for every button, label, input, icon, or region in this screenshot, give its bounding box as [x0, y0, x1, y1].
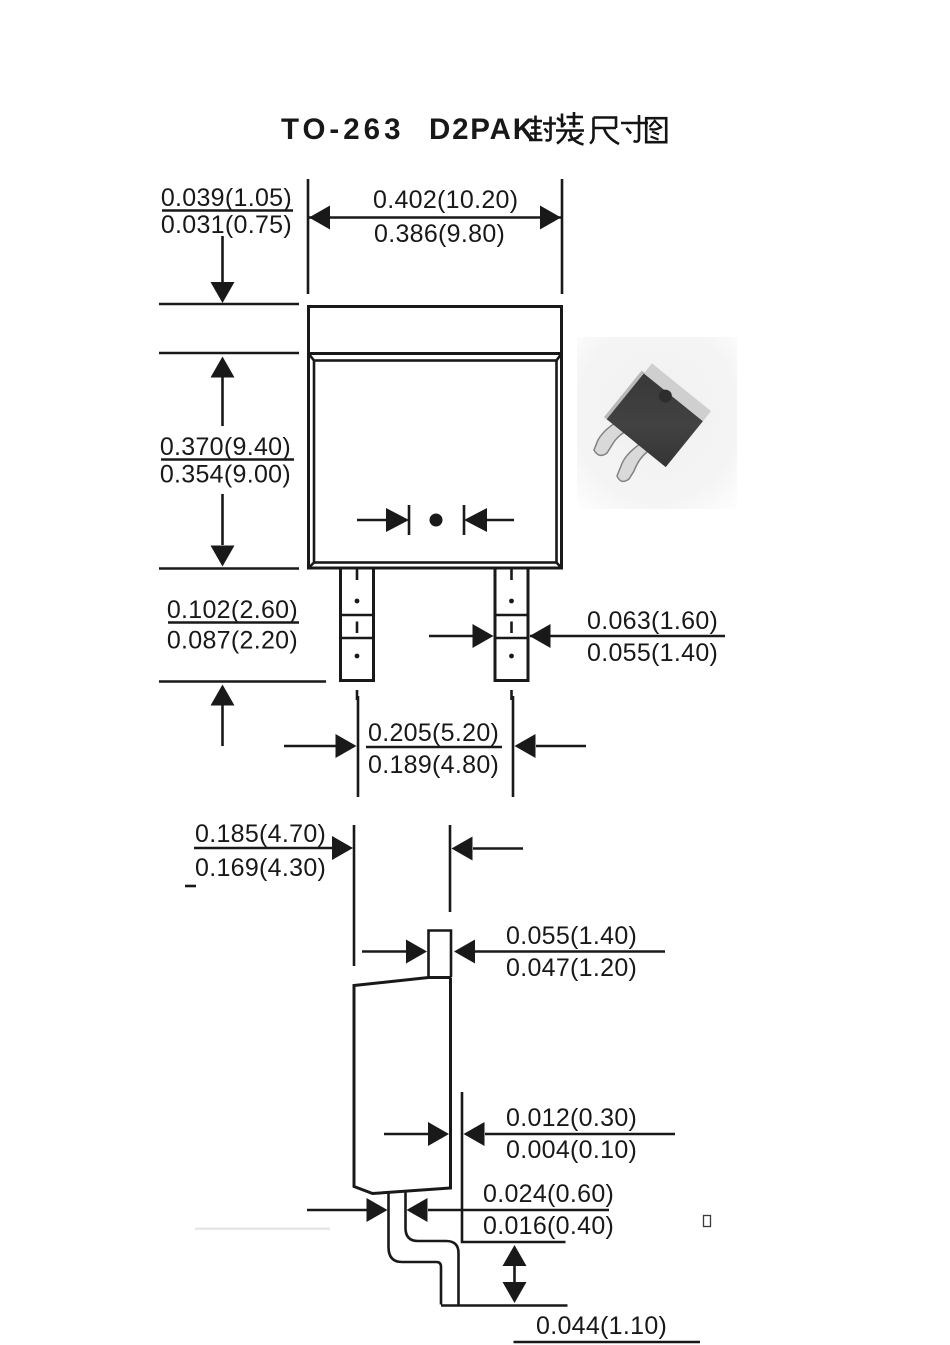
dim 0.370/0.354 arrow up: [211, 357, 235, 427]
diode symbol inside body: [357, 505, 514, 535]
svg-text:TO-263: TO-263: [281, 113, 404, 146]
title latin TO-263 D2PAK: [281, 113, 536, 146]
dim text 0.012(0.30)/0.004(0.10): [506, 1104, 637, 1164]
top view body outer outline: [309, 354, 562, 569]
dim 0.185 right arrow: [452, 837, 524, 861]
svg-text:0.055(1.40): 0.055(1.40): [506, 922, 637, 950]
dim 0.024/0.016 arrows: [307, 1198, 609, 1222]
svg-text:0.386(9.80): 0.386(9.80): [374, 220, 505, 248]
title chinese 装: [556, 112, 584, 145]
side view extension line right: [449, 825, 452, 912]
title chinese 图: [646, 118, 666, 142]
package photo: body: [604, 361, 711, 467]
dim text 0.102(2.60)/0.087(2.20): [167, 596, 299, 655]
svg-text:0.205(5.20): 0.205(5.20): [368, 719, 499, 747]
dim text 0.024(0.60)/0.016(0.40): [483, 1180, 614, 1240]
stray dash mark: [185, 885, 196, 888]
extension line body top (left): [159, 352, 299, 355]
bottom extension line under 0.044 text: [514, 1341, 701, 1344]
svg-text:0.012(0.30): 0.012(0.30): [506, 1104, 637, 1132]
svg-text:0.087(2.20): 0.087(2.20): [167, 627, 298, 655]
svg-text:0.185(4.70): 0.185(4.70): [195, 820, 326, 848]
arrow down to tab-top line: [211, 236, 235, 303]
extension line lead edge (0.012 dim) with corner: [462, 1092, 566, 1242]
faint smudge mark: [195, 1228, 330, 1230]
package photo: lead 2: [617, 442, 647, 481]
extension line body right (top dim): [561, 179, 564, 294]
dim 0.370/0.354 arrow down: [211, 494, 235, 567]
svg-text:0.024(0.60): 0.024(0.60): [483, 1180, 614, 1208]
svg-text:0.047(1.20): 0.047(1.20): [506, 954, 637, 982]
package photo: lead 1: [594, 418, 627, 455]
top view tab outline: [309, 307, 562, 354]
dim text 0.185(4.70)/0.169(4.30) with arrow: [194, 820, 353, 882]
top view right lead outline: [495, 568, 528, 681]
svg-text:0.189(4.80): 0.189(4.80): [368, 751, 499, 779]
dim text 0.205(5.20)/0.189(4.80): [366, 719, 502, 779]
svg-text:0.004(0.10): 0.004(0.10): [506, 1136, 637, 1164]
dim line 0.402/0.386 with arrows: [308, 206, 562, 230]
svg-text:0.044(1.10): 0.044(1.10): [536, 1312, 667, 1340]
title chinese 寸: [621, 115, 648, 142]
svg-text:0.402(10.20): 0.402(10.20): [373, 186, 518, 214]
side view tab outline: [429, 931, 452, 978]
svg-text:0.354(9.00): 0.354(9.00): [160, 461, 291, 489]
arrow up to lead-bottom line: [211, 685, 235, 747]
dim text 0.370(9.40)/0.354(9.00): [160, 433, 294, 489]
dim 0.205/0.189 extension lines: [357, 696, 360, 797]
dim 0.044 double arrow: [503, 1245, 527, 1303]
dim 0.205 arrows: [284, 734, 586, 758]
top view left lead outline: [341, 568, 374, 681]
extension line lead bottom (left): [159, 680, 326, 683]
side view body outline: [354, 978, 451, 1194]
svg-text:0.063(1.60): 0.063(1.60): [587, 607, 718, 635]
left lead centerline marks: [341, 570, 374, 701]
dim 0.012/0.004 arrows: [384, 1122, 675, 1146]
right lead centerline marks: [495, 570, 528, 701]
title chinese 尺: [590, 118, 619, 145]
svg-text:0.031(0.75): 0.031(0.75): [161, 211, 292, 239]
dim text 0.063(1.60)/0.055(1.40): [587, 607, 718, 667]
svg-text:0.102(2.60): 0.102(2.60): [167, 596, 298, 624]
side view lead inner contour: [406, 1193, 459, 1305]
dim text 0.055(1.40)/0.047(1.20): [506, 922, 637, 982]
package photo background: [577, 337, 737, 509]
side view extension line left: [353, 825, 356, 966]
title chinese 封: [529, 116, 556, 141]
svg-text:0.039(1.05): 0.039(1.05): [161, 184, 292, 212]
svg-text:0.169(4.30): 0.169(4.30): [195, 854, 326, 882]
svg-text:0.055(1.40): 0.055(1.40): [587, 639, 718, 667]
extension line body left (top dim): [307, 179, 310, 294]
extension line tab top (left): [159, 303, 299, 306]
dim 0.055/0.047 arrows at side tab: [362, 940, 665, 964]
svg-text:0.370(9.40): 0.370(9.40): [160, 433, 291, 461]
small tofu box glyph: [704, 1216, 711, 1227]
top view body inner outline: [309, 354, 562, 569]
lead foot bottom line: [441, 1304, 568, 1307]
svg-text:0.016(0.40): 0.016(0.40): [483, 1212, 614, 1240]
side view lead outer contour: [389, 1194, 442, 1305]
dim text 0.039(1.05)/0.031(0.75): [161, 184, 293, 239]
dim 0.063/0.055 arrows at right lead: [429, 624, 725, 648]
extension line body bottom (left): [159, 567, 299, 570]
svg-text:D2PAK: D2PAK: [429, 113, 536, 146]
